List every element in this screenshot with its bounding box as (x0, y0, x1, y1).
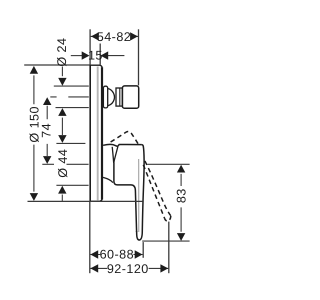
svg-text:92-120: 92-120 (107, 262, 149, 276)
lever grip back edge (135, 191, 136, 233)
arrow 92-120 left (90, 264, 98, 272)
knob body (122, 86, 138, 108)
lever grip bottom tip (137, 231, 143, 240)
arrow dia24 top (58, 78, 66, 86)
arrow 74 top (43, 97, 51, 105)
svg-text:54-82: 54-82 (97, 30, 131, 44)
handle centerline left (42, 163, 88, 165)
lever hub horizontal and back corner (114, 163, 135, 191)
escutcheon plate top edge (90, 65, 103, 67)
arrow 15 left (82, 51, 90, 59)
plate top extension line (24, 64, 89, 66)
ext line 60-88 right (142, 242, 144, 258)
knob dome (108, 89, 115, 106)
knob top ext line (54, 85, 89, 87)
lever head back edge B (114, 147, 118, 163)
ext line 92-120 right (168, 222, 170, 274)
escutcheon plate front face (101, 67, 103, 199)
lever hub bottom curve (103, 177, 113, 182)
arrow 92-120 right (160, 264, 168, 272)
arrow dia44 top (58, 135, 66, 143)
knob hub collar (103, 86, 107, 108)
dim line 92-120 (90, 267, 168, 269)
dim line 54-82 (91, 35, 138, 37)
ext line plate front top (99, 44, 101, 65)
dashed handle tip (165, 216, 171, 221)
arrow 54-82 right (130, 32, 138, 40)
svg-text:Ø 24: Ø 24 (55, 38, 69, 67)
arrow 60-88 left (90, 250, 98, 258)
ext line knob front (138, 29, 140, 85)
dia44 bottom ext line (56, 184, 88, 186)
handle centerline right / 83 top ext (147, 163, 189, 165)
knob ring (116, 88, 122, 106)
svg-text:15: 15 (88, 48, 103, 62)
escutcheon plate bottom edge (90, 199, 103, 201)
svg-text:74: 74 (39, 123, 53, 138)
dia150 dim line (33, 75, 35, 191)
lever head back edge A (112, 147, 114, 163)
lever top contour (103, 144, 142, 146)
arrow 54-82 left (91, 32, 99, 40)
dim 15 left tail (71, 55, 83, 57)
svg-text:60-88: 60-88 (100, 248, 134, 262)
svg-text:Ø 44: Ø 44 (56, 149, 70, 178)
escutcheon plate inner contour (97, 67, 99, 201)
ext line wall top (89, 29, 91, 65)
escutcheon plate back edge (89, 65, 91, 202)
arrow 15 right (100, 51, 108, 59)
arrow 60-88 right (135, 250, 143, 258)
arrow dia44 bottom (58, 186, 66, 194)
dim 15 right tail (108, 55, 125, 57)
ext line wall bottom (89, 202, 91, 274)
knob ring inner line (119, 88, 121, 107)
dia24 dim line lower / dia44 upper shared stem (61, 118, 63, 135)
arrow 74 bottom (43, 156, 51, 164)
dia44 lower stem (61, 195, 63, 201)
lever grip inner line (138, 159, 140, 232)
83 bottom ext line (142, 240, 189, 242)
arrow dia150 bottom (30, 193, 38, 201)
arrow 83 top (177, 165, 185, 173)
dashed handle front edge (145, 161, 171, 216)
lever front edge and grip front (142, 145, 145, 231)
dia44 top ext line (56, 142, 85, 144)
baseline plate bottom (28, 200, 143, 202)
dim74 line (46, 106, 48, 156)
knob bottom ext line (56, 107, 89, 109)
dashed handle back edge (143, 165, 164, 219)
arrow 83 bottom (177, 233, 185, 241)
dim83 line (180, 174, 182, 232)
knob centerline (50, 96, 89, 98)
dim line 60-88 (90, 254, 142, 256)
arrow dia24 bottom (58, 108, 66, 116)
arrow dia150 top (30, 66, 38, 74)
svg-text:83: 83 (174, 188, 188, 203)
dia24 dim line upper (61, 67, 63, 77)
dashed handle raised arc (111, 131, 139, 144)
